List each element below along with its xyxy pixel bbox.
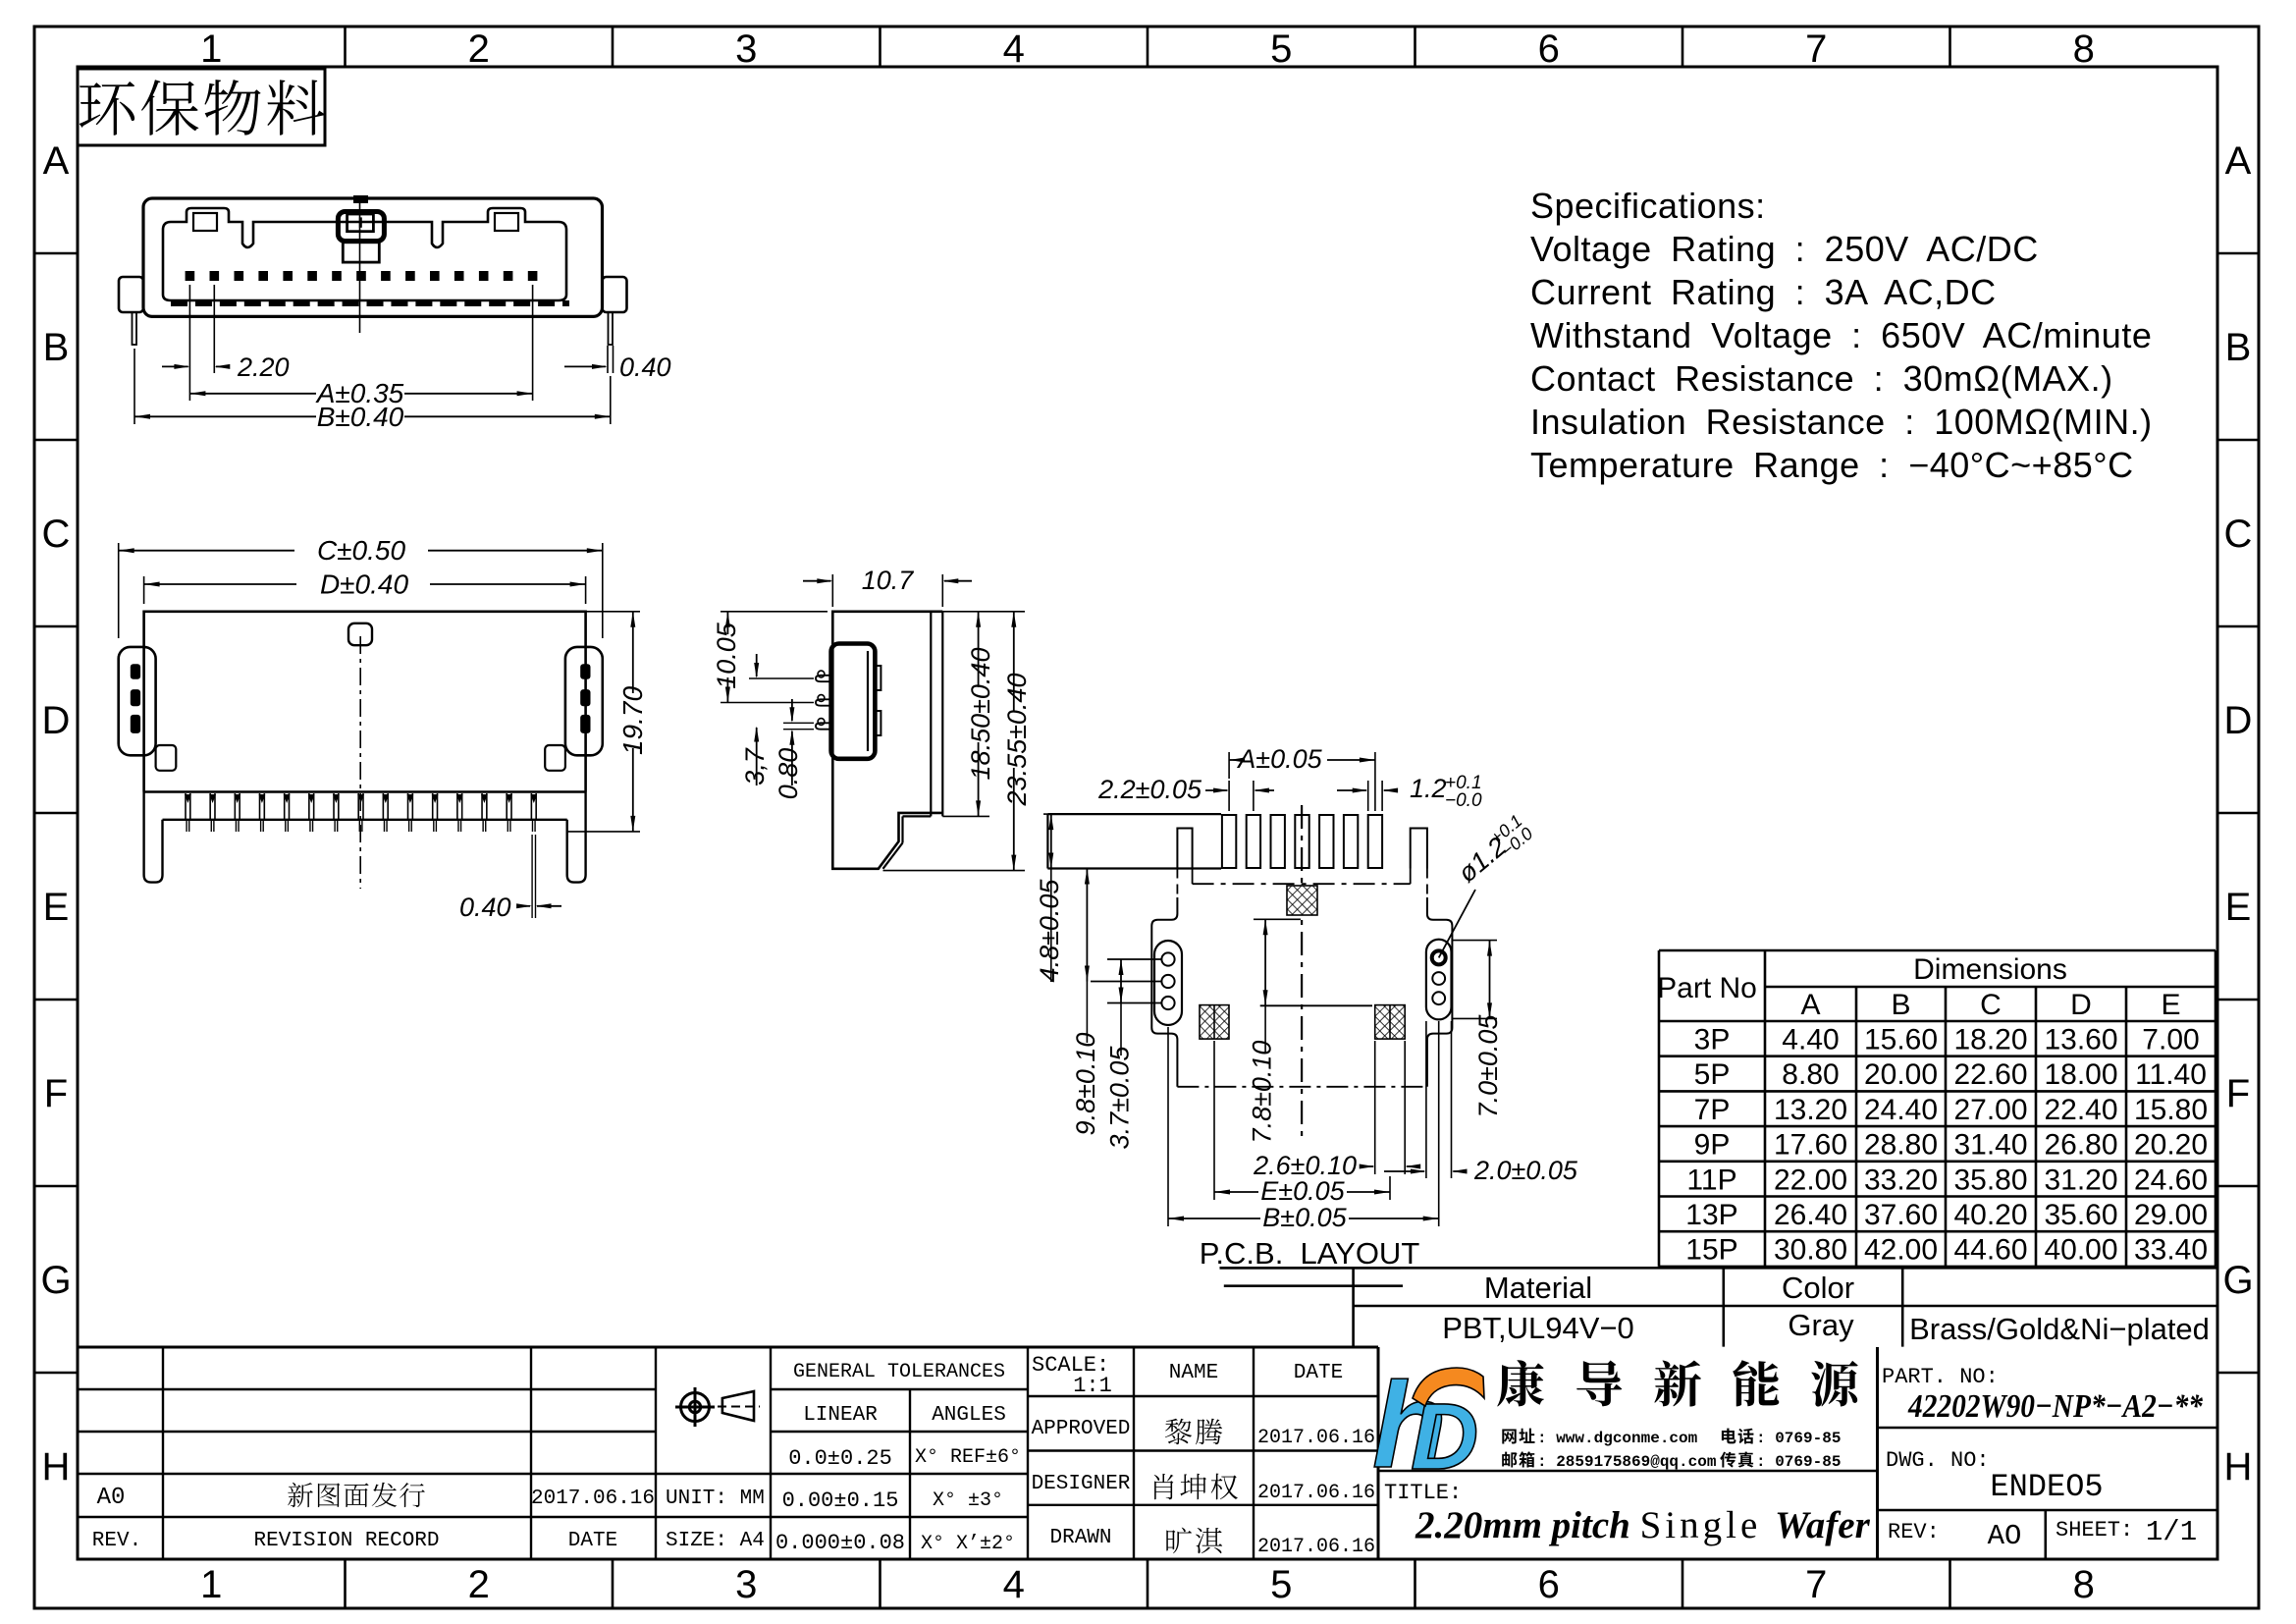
- svg-text:Contact Resistance : 30mΩ(MAX.: Contact Resistance : 30mΩ(MAX.): [1530, 358, 2113, 399]
- svg-text:Material: Material: [1484, 1271, 1592, 1305]
- svg-text:GENERAL TOLERANCES: GENERAL TOLERANCES: [793, 1361, 1005, 1383]
- svg-text:H: H: [2224, 1445, 2253, 1489]
- pcb left hatch pads: [1200, 1005, 1229, 1040]
- pcb right hatch pads: [1375, 1005, 1406, 1040]
- svg-text:LINEAR: LINEAR: [803, 1404, 878, 1427]
- front view bottom tab row: [171, 300, 187, 306]
- dim 19.70 (bottom view): [586, 611, 640, 613]
- svg-text:33.20: 33.20: [1864, 1164, 1938, 1196]
- svg-text:7P: 7P: [1694, 1094, 1731, 1126]
- svg-text:Insulation Resistance : 100MΩ(: Insulation Resistance : 100MΩ(MIN.): [1530, 402, 2153, 442]
- svg-text:26.40: 26.40: [1774, 1199, 1847, 1231]
- svg-text:4.40: 4.40: [1782, 1024, 1839, 1056]
- dim 1.2 +0.1/-0.0 (pcb): [1367, 781, 1369, 811]
- dim 0.40 (front): [607, 346, 609, 373]
- dim A±0.35 (front): [188, 373, 190, 401]
- svg-text:7: 7: [1805, 27, 1827, 71]
- svg-text:REV:: REV:: [1888, 1520, 1940, 1544]
- svg-text:2.0±0.05: 2.0±0.05: [1473, 1156, 1578, 1185]
- projection symbols: [681, 1393, 710, 1422]
- svg-text:B: B: [1891, 989, 1910, 1021]
- dim 7.8±0.10 (pcb): [1254, 918, 1301, 920]
- svg-text:18.20: 18.20: [1953, 1024, 2027, 1056]
- svg-text:4.8±0.05: 4.8±0.05: [1035, 879, 1064, 983]
- dim 10.7 (side view): [831, 574, 833, 607]
- svg-text:: 2859175869@qq.com: : 2859175869@qq.com: [1537, 1453, 1717, 1471]
- dim 4.8±0.05 (pcb): [1043, 813, 1047, 815]
- bottom view body outline: [144, 612, 586, 792]
- dim B±0.05 (pcb): [1167, 1027, 1169, 1226]
- svg-text:: www.dgconme.com: : www.dgconme.com: [1537, 1430, 1698, 1447]
- svg-text:7.8±0.10: 7.8±0.10: [1248, 1041, 1277, 1144]
- dim 10.05 (side): [721, 611, 828, 613]
- dim 2.6±0.10 (pcb): [1374, 1041, 1376, 1174]
- side view face inner details: [867, 651, 869, 751]
- pcb left outline channel: [1176, 869, 1178, 898]
- svg-text:Current Rating : 3A AC,DC: Current Rating : 3A AC,DC: [1530, 272, 1997, 312]
- svg-text:P.C.B. LAYOUT: P.C.B. LAYOUT: [1200, 1236, 1420, 1271]
- svg-text:40.00: 40.00: [2044, 1234, 2117, 1267]
- svg-text:A: A: [2225, 139, 2252, 183]
- svg-text:C±0.50: C±0.50: [317, 535, 406, 566]
- front view right mounting ear: [603, 277, 627, 312]
- dim 2.2±0.05 (pcb): [1228, 781, 1230, 811]
- svg-text:17.60: 17.60: [1774, 1129, 1847, 1162]
- material color strip: [1220, 1267, 2218, 1270]
- front view contact pins row (15): [186, 271, 195, 281]
- dim 3,7 (side): [749, 677, 814, 679]
- svg-text:1:1: 1:1: [1073, 1374, 1112, 1398]
- dimensions table: [1659, 949, 2216, 952]
- svg-text:Temperature Range : −40°C~+85°: Temperature Range : −40°C~+85°C: [1530, 445, 2134, 485]
- svg-text:31.40: 31.40: [1953, 1129, 2027, 1162]
- svg-text:1: 1: [200, 27, 222, 71]
- dim 18.50±0.40 (side): [942, 815, 989, 817]
- svg-text:Brass/Gold&Ni−plated: Brass/Gold&Ni−plated: [1909, 1312, 2210, 1346]
- svg-text:42202W90−NP*−A2−**: 42202W90−NP*−A2−**: [1907, 1388, 2204, 1425]
- company name 康导新能源: [1497, 1360, 1544, 1406]
- svg-text:NAME: NAME: [1169, 1362, 1218, 1384]
- svg-text:G: G: [2222, 1259, 2253, 1302]
- svg-text:A0: A0: [97, 1485, 126, 1511]
- svg-text:APPROVED: APPROVED: [1032, 1418, 1131, 1440]
- svg-text:40.20: 40.20: [1953, 1199, 2027, 1231]
- svg-text:REV.: REV.: [92, 1530, 141, 1552]
- side view mating face (bold): [831, 644, 876, 759]
- svg-text:19.70: 19.70: [617, 686, 648, 755]
- pcb right pad stadium: [1426, 940, 1452, 1020]
- svg-text:X° ±3°: X° ±3°: [933, 1489, 1003, 1512]
- pcb bottom hidden edge: [1177, 1086, 1427, 1088]
- svg-text:2: 2: [468, 27, 490, 71]
- pcb right step notch: [1411, 829, 1427, 869]
- svg-text:Specifications:: Specifications:: [1530, 186, 1766, 226]
- svg-text:3,7: 3,7: [740, 747, 770, 785]
- svg-text:22.60: 22.60: [1953, 1058, 2027, 1091]
- svg-text:24.60: 24.60: [2134, 1164, 2208, 1196]
- svg-text:6: 6: [1538, 27, 1560, 71]
- dim E±0.05 (pcb): [1213, 1041, 1215, 1200]
- dim 3.7±0.05 (pcb): [1107, 958, 1162, 960]
- svg-text:30.80: 30.80: [1774, 1234, 1847, 1267]
- svg-text:C: C: [42, 513, 71, 556]
- pcb right outline channel: [1426, 869, 1428, 898]
- svg-text:2.20: 2.20: [237, 352, 290, 382]
- svg-text:9P: 9P: [1694, 1129, 1731, 1162]
- svg-text:: 0769-85: : 0769-85: [1756, 1453, 1841, 1471]
- svg-text:−0.0: −0.0: [1445, 790, 1482, 811]
- svg-text:18.50±0.40: 18.50±0.40: [966, 648, 995, 781]
- svg-text:Part No: Part No: [1657, 972, 1757, 1004]
- front view left mounting ear: [119, 277, 143, 312]
- svg-text:5: 5: [1270, 27, 1292, 71]
- bottom view left ear: [119, 647, 156, 755]
- svg-text:X° REF±6°: X° REF±6°: [915, 1446, 1021, 1469]
- svg-text:AO: AO: [1988, 1520, 2022, 1552]
- svg-text:Gray: Gray: [1788, 1308, 1854, 1342]
- svg-text:UNIT: MM: UNIT: MM: [666, 1488, 765, 1510]
- pcb central pilot hatch: [1287, 886, 1317, 915]
- svg-text:11P: 11P: [1686, 1164, 1736, 1196]
- svg-text:2017.06.16: 2017.06.16: [1257, 1427, 1375, 1449]
- bottom view right leg: [567, 792, 586, 883]
- dim 9.8±0.10 (pcb): [1047, 868, 1080, 870]
- svg-text:D: D: [2070, 989, 2092, 1021]
- front view small squares detail: [193, 213, 217, 231]
- svg-text:29.00: 29.00: [2134, 1199, 2208, 1231]
- svg-text:PART. NO:: PART. NO:: [1882, 1365, 1999, 1389]
- svg-text:DRAWN: DRAWN: [1049, 1527, 1111, 1549]
- svg-text:22.40: 22.40: [2044, 1094, 2117, 1126]
- pcb band outline: [1047, 813, 1221, 815]
- dim C±0.50 (bottom view): [118, 543, 120, 638]
- dim 0.80 (side): [783, 722, 814, 724]
- svg-text:0.40: 0.40: [459, 893, 511, 922]
- svg-text:27.00: 27.00: [1953, 1094, 2027, 1126]
- dim B±0.40 (front): [133, 349, 135, 424]
- svg-text:A: A: [1800, 989, 1820, 1021]
- svg-text:4: 4: [1003, 27, 1025, 71]
- front view center latch: [338, 212, 384, 242]
- svg-text:7.00: 7.00: [2142, 1024, 2199, 1056]
- svg-text:28.80: 28.80: [1864, 1129, 1938, 1162]
- svg-text:D±0.40: D±0.40: [320, 569, 409, 600]
- bottom view top latch: [348, 623, 372, 645]
- svg-text:20.00: 20.00: [1864, 1058, 1938, 1091]
- svg-text:A: A: [43, 139, 70, 183]
- scale/name/date block: [1028, 1395, 1378, 1397]
- svg-text:C: C: [2224, 513, 2253, 556]
- svg-text:13.60: 13.60: [2044, 1024, 2117, 1056]
- svg-text:B±0.05: B±0.05: [1262, 1203, 1347, 1232]
- bottom view comb top line: [144, 790, 586, 792]
- dim 0.40 (bottom view): [531, 835, 533, 918]
- company logo mark hD: [1374, 1379, 1441, 1467]
- eco-material label box 环保物料: [78, 69, 325, 145]
- svg-text:B±0.40: B±0.40: [317, 402, 404, 432]
- bottom view right ear: [565, 647, 603, 755]
- svg-text:0.0±0.25: 0.0±0.25: [788, 1446, 892, 1471]
- svg-text:F: F: [44, 1072, 68, 1115]
- svg-text:20.20: 20.20: [2134, 1129, 2208, 1162]
- front view inner contour: [163, 208, 566, 300]
- svg-text:2017.06.16: 2017.06.16: [1257, 1482, 1375, 1504]
- svg-text:DATE: DATE: [568, 1530, 617, 1552]
- side view inner offset lines: [930, 612, 932, 817]
- front view center line: [359, 198, 361, 333]
- svg-text:15P: 15P: [1685, 1234, 1737, 1267]
- bottom view comb bottom line: [163, 819, 567, 821]
- pcb left step notch: [1177, 829, 1192, 869]
- svg-text:D: D: [42, 699, 71, 742]
- svg-text:2.2±0.05: 2.2±0.05: [1097, 775, 1202, 804]
- svg-text:B: B: [43, 326, 70, 369]
- svg-text:: 0769-85: : 0769-85: [1756, 1430, 1841, 1447]
- svg-text:0.40: 0.40: [619, 352, 671, 382]
- svg-text:3.7±0.05: 3.7±0.05: [1105, 1046, 1135, 1150]
- svg-text:3P: 3P: [1694, 1024, 1731, 1056]
- svg-text:X° X’±2°: X° X’±2°: [921, 1533, 1015, 1555]
- pcb slots (7): [1222, 815, 1236, 868]
- svg-text:42.00: 42.00: [1864, 1234, 1938, 1267]
- svg-text:E±0.05: E±0.05: [1260, 1176, 1345, 1206]
- svg-text:7: 7: [1805, 1563, 1827, 1606]
- side view 3 pins: [816, 676, 832, 681]
- contact lines: [1502, 1430, 1516, 1444]
- svg-text:10.7: 10.7: [862, 566, 915, 595]
- dim 7.0±0.05 (pcb): [1452, 940, 1498, 942]
- pcb left pad stadium: [1154, 941, 1182, 1025]
- side view body outline: [832, 612, 942, 869]
- svg-text:3: 3: [735, 1563, 757, 1606]
- title block horizontal rows (left): [78, 1346, 1378, 1349]
- svg-text:Color: Color: [1782, 1271, 1854, 1305]
- leader ø1.2 (pcb): [1439, 890, 1475, 957]
- svg-text:8: 8: [2073, 27, 2095, 71]
- svg-text:7.0±0.05: 7.0±0.05: [1473, 1014, 1503, 1118]
- front view left ear pin: [133, 312, 137, 345]
- svg-text:6: 6: [1538, 1563, 1560, 1606]
- svg-text:5: 5: [1270, 1563, 1292, 1606]
- svg-text:ANGLES: ANGLES: [932, 1404, 1006, 1427]
- svg-text:Dimensions: Dimensions: [1913, 953, 2067, 986]
- svg-text:33.40: 33.40: [2134, 1234, 2208, 1267]
- svg-text:DESIGNER: DESIGNER: [1032, 1473, 1131, 1495]
- svg-text:1: 1: [200, 1563, 222, 1606]
- pcb vertical centerline: [1301, 805, 1303, 1139]
- svg-text:5P: 5P: [1694, 1058, 1731, 1091]
- svg-text:15.80: 15.80: [2134, 1094, 2208, 1126]
- svg-text:9.8±0.10: 9.8±0.10: [1071, 1033, 1100, 1136]
- svg-text:35.80: 35.80: [1953, 1164, 2027, 1196]
- svg-text:18.00: 18.00: [2044, 1058, 2117, 1091]
- svg-text:8: 8: [2073, 1563, 2095, 1606]
- dim 2.0±0.05 (pcb): [1425, 1021, 1427, 1178]
- svg-text:F: F: [2226, 1072, 2250, 1115]
- svg-text:8.80: 8.80: [1782, 1058, 1839, 1091]
- svg-text:G: G: [40, 1259, 71, 1302]
- front view right ear pin: [609, 312, 614, 345]
- dim D±0.40 (bottom view): [143, 576, 145, 604]
- svg-text:31.20: 31.20: [2044, 1164, 2117, 1196]
- dim 2.20 (front): [188, 285, 190, 373]
- svg-text:2: 2: [468, 1563, 490, 1606]
- title block vertical lines (left): [162, 1347, 164, 1559]
- svg-text:TITLE:: TITLE:: [1384, 1481, 1462, 1505]
- svg-text:1.2: 1.2: [1410, 774, 1447, 803]
- zone column ticks top/bottom: [344, 27, 347, 67]
- svg-text:0.80: 0.80: [774, 748, 803, 800]
- front view connector body: [143, 198, 603, 316]
- svg-text:B: B: [2225, 326, 2252, 369]
- svg-text:23.55±0.40: 23.55±0.40: [1002, 674, 1032, 807]
- pcb horizontal hidden line: [1192, 869, 1194, 885]
- dim 23.55±0.40 (side): [883, 870, 1026, 872]
- svg-text:A±0.05: A±0.05: [1236, 744, 1322, 774]
- svg-text:DWG. NO:: DWG. NO:: [1886, 1448, 1990, 1473]
- svg-text:4: 4: [1003, 1563, 1025, 1606]
- svg-text:Voltage Rating : 250V AC/DC: Voltage Rating : 250V AC/DC: [1530, 229, 2039, 269]
- svg-text:SHEET:: SHEET:: [2056, 1518, 2133, 1543]
- bottom view left ear notch: [156, 745, 177, 771]
- svg-text:E: E: [2161, 989, 2180, 1021]
- svg-text:22.00: 22.00: [1774, 1164, 1847, 1196]
- dim A±0.05 (pcb): [1228, 752, 1230, 779]
- svg-text:15.60: 15.60: [1864, 1024, 1938, 1056]
- svg-text:26.80: 26.80: [2044, 1129, 2117, 1162]
- svg-text:2017.06.16: 2017.06.16: [531, 1488, 655, 1510]
- svg-text:44.60: 44.60: [1953, 1234, 2027, 1267]
- svg-text:1/1: 1/1: [2146, 1516, 2197, 1548]
- svg-text:SIZE: A4: SIZE: A4: [666, 1530, 765, 1552]
- svg-text:Withstand Voltage : 650V AC/mi: Withstand Voltage : 650V AC/minute: [1530, 315, 2152, 355]
- svg-text:13P: 13P: [1685, 1199, 1737, 1231]
- svg-text:PBT,UL94V−0: PBT,UL94V−0: [1442, 1311, 1634, 1345]
- svg-text:11.40: 11.40: [2135, 1058, 2207, 1091]
- svg-text:13.20: 13.20: [1774, 1094, 1847, 1126]
- svg-text:D: D: [2224, 699, 2253, 742]
- svg-text:10.05: 10.05: [712, 622, 741, 689]
- bottom view left leg: [144, 792, 163, 883]
- svg-text:2.20mm pitch Single Wafer: 2.20mm pitch Single Wafer: [1415, 1504, 1871, 1546]
- svg-text:37.60: 37.60: [1864, 1199, 1938, 1231]
- svg-text:0.00±0.15: 0.00±0.15: [782, 1489, 899, 1513]
- svg-text:DATE: DATE: [1294, 1362, 1343, 1384]
- logo & title cells: [1876, 1347, 1879, 1559]
- svg-text:35.60: 35.60: [2044, 1199, 2117, 1231]
- svg-text:0.000±0.08: 0.000±0.08: [775, 1531, 905, 1555]
- svg-text:2017.06.16: 2017.06.16: [1257, 1536, 1375, 1558]
- svg-text:24.40: 24.40: [1864, 1094, 1938, 1126]
- svg-text:H: H: [42, 1445, 71, 1489]
- svg-text:ENDEO5: ENDEO5: [1990, 1469, 2103, 1505]
- svg-text:E: E: [2225, 886, 2252, 929]
- svg-text:REVISION RECORD: REVISION RECORD: [253, 1530, 439, 1552]
- zone row ticks left/right: [34, 252, 78, 255]
- svg-text:3: 3: [735, 27, 757, 71]
- bottom view right ear notch: [545, 745, 565, 771]
- svg-text:E: E: [43, 886, 70, 929]
- svg-text:C: C: [1980, 989, 2002, 1021]
- bottom view centerline: [359, 636, 361, 889]
- bottom view comb teeth (15): [185, 793, 187, 820]
